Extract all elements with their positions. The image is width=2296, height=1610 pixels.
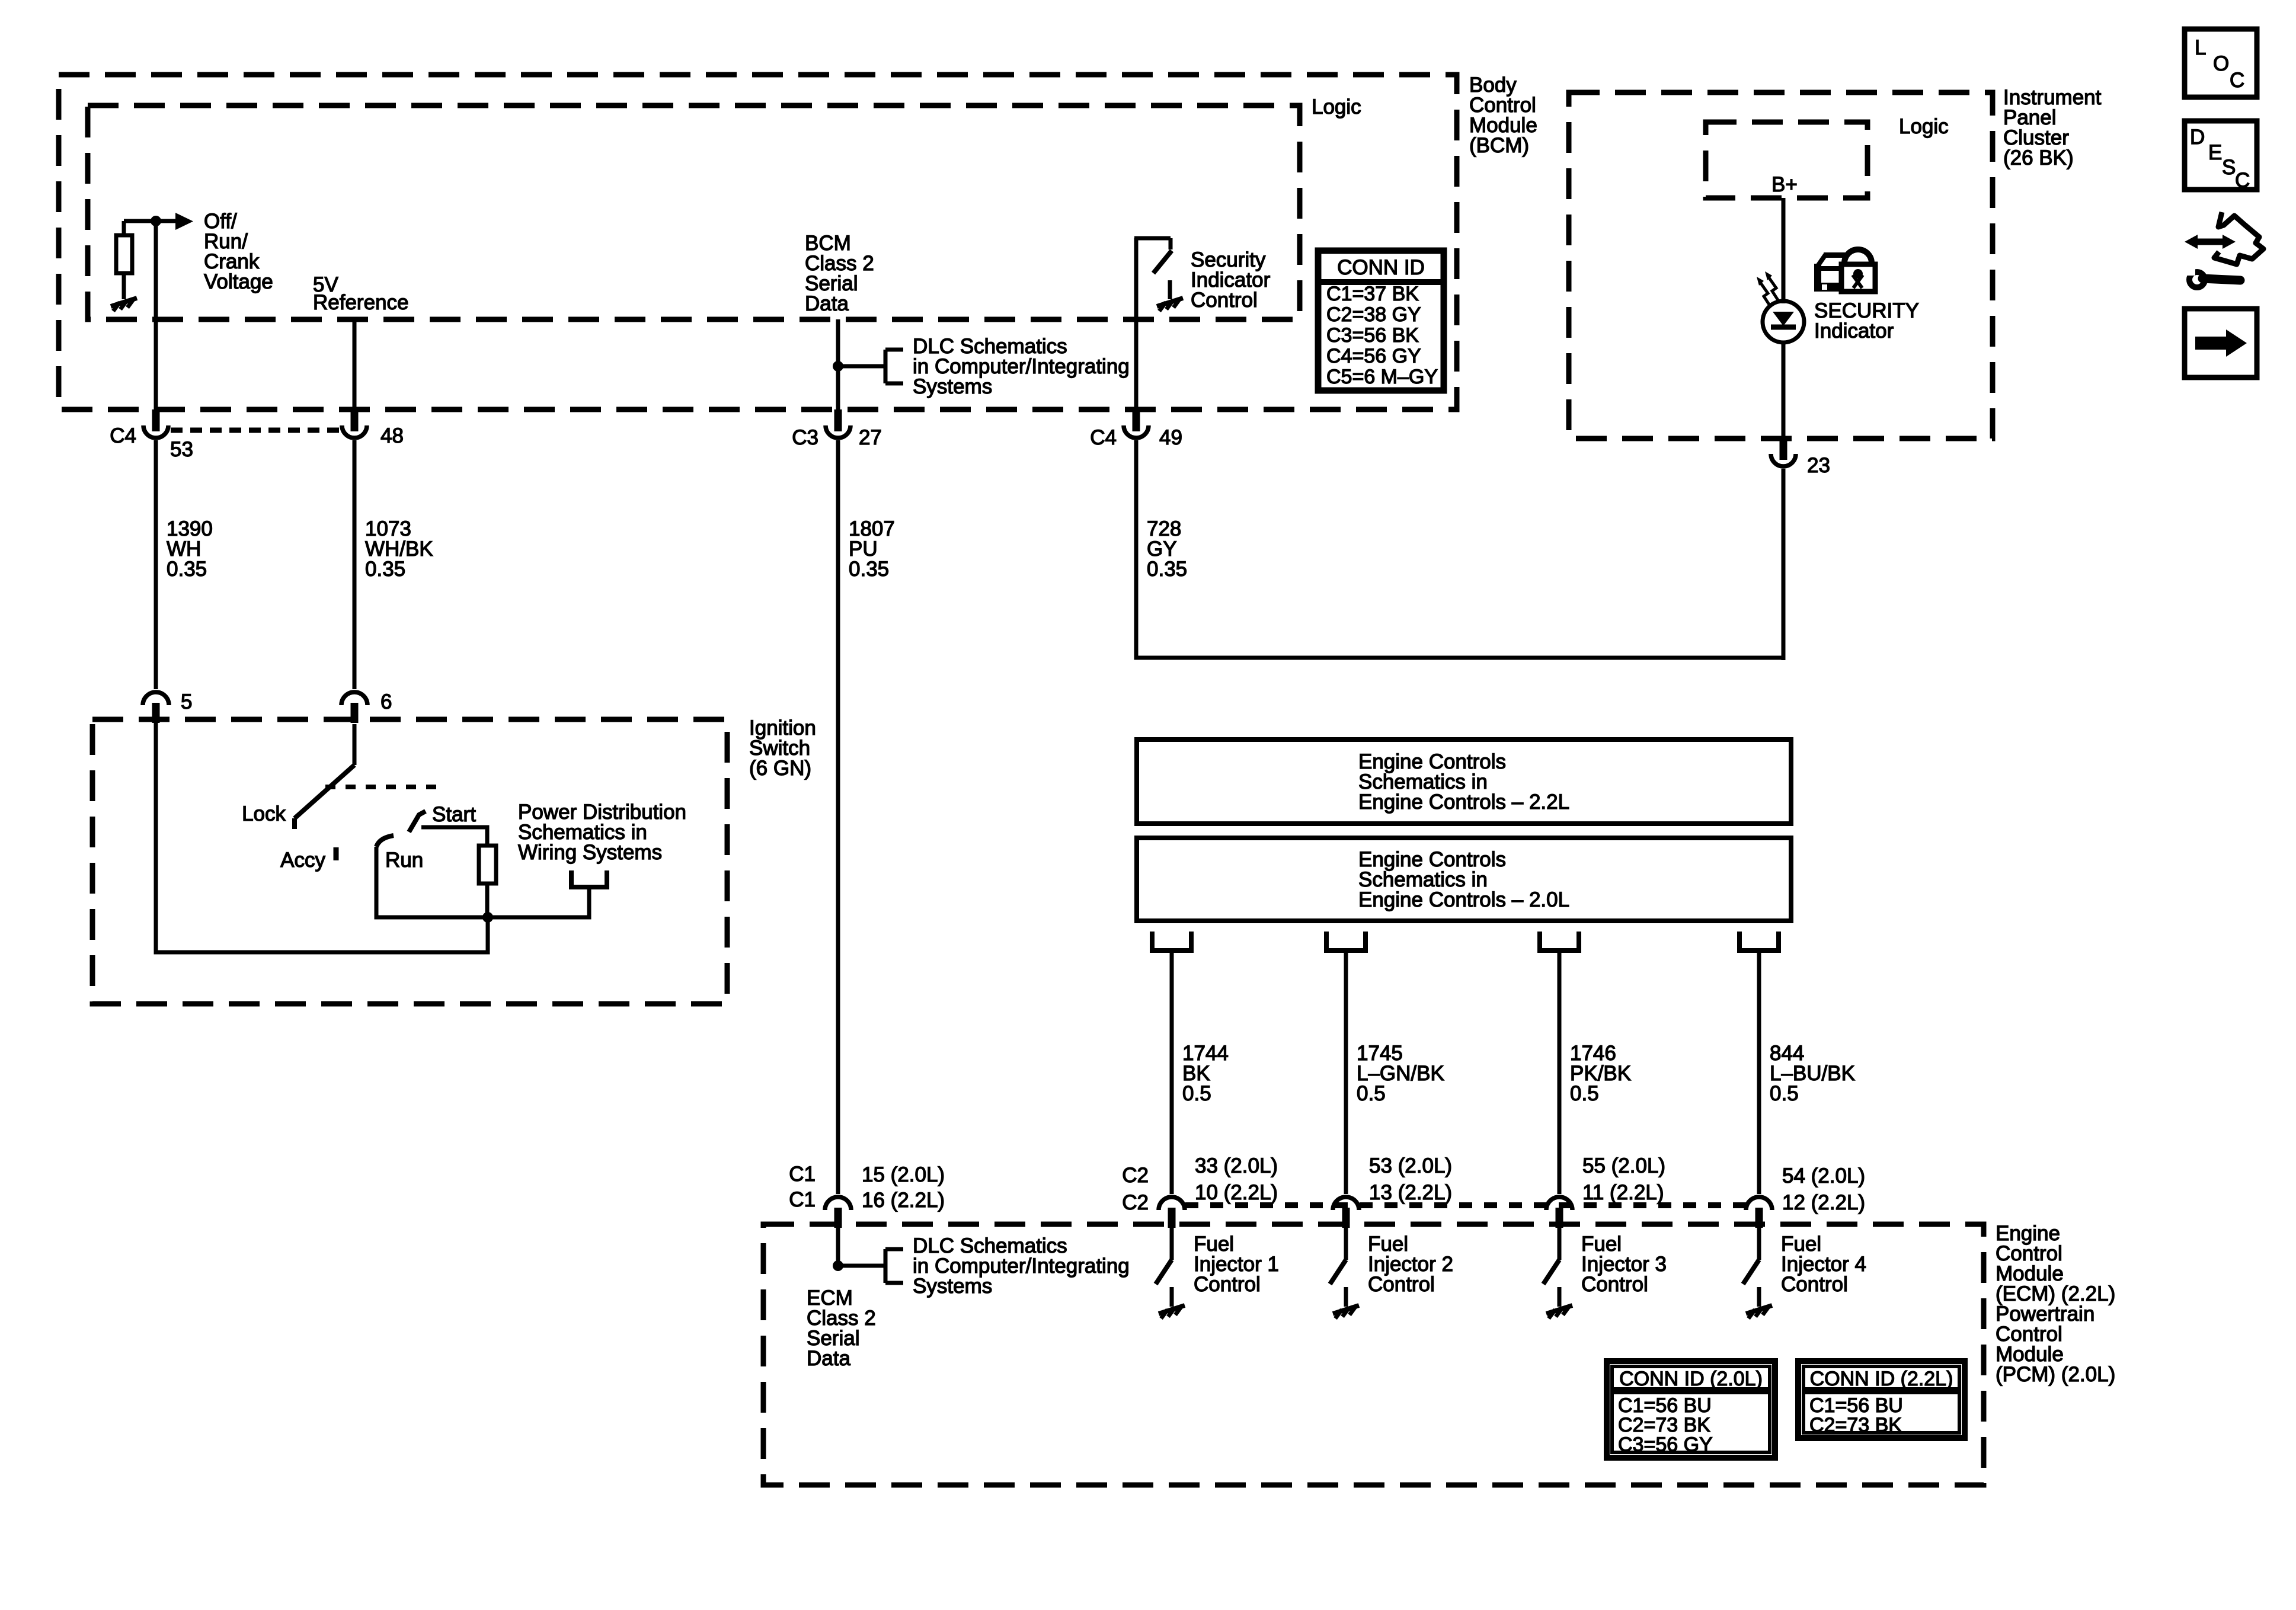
label C3 (27) [792, 426, 818, 449]
svg-text:55 (2.0L): 55 (2.0L) [1582, 1154, 1665, 1177]
svg-text:CONN ID (2.0L): CONN ID (2.0L) [1619, 1368, 1763, 1390]
wire injector 2 driver feed [1344, 1228, 1348, 1260]
wire DLC stub (ECM) [838, 1264, 885, 1268]
label injector 3 pin numbers [1582, 1154, 1665, 1204]
svg-text:0.5: 0.5 [1770, 1082, 1799, 1105]
connector injector 3 cup [1546, 1197, 1572, 1210]
connector injector 4 pin bar [1755, 1208, 1763, 1228]
svg-text:Control: Control [1191, 289, 1258, 312]
label B+ [1771, 173, 1798, 196]
label Body Control Module (BCM) [1469, 73, 1537, 157]
svg-text:Start: Start [432, 803, 476, 826]
switch injector 1 driver blade [1156, 1260, 1172, 1284]
ground (security indicator driver) [1157, 298, 1183, 311]
Ignition Switch dashed box [92, 719, 727, 1004]
off-page connector fuel injector 4 feed [1739, 932, 1779, 950]
label SECURITY Indicator [1814, 299, 1919, 343]
connector C1 (ECM) cup [825, 1197, 851, 1210]
label injector 2 pin numbers [1369, 1154, 1452, 1204]
svg-text:(26 BK): (26 BK) [2003, 146, 2074, 169]
svg-text:Voltage: Voltage [204, 270, 273, 293]
label 48 [380, 424, 404, 447]
switch ignition blade [295, 765, 354, 818]
off-page connector Power Distribution [571, 870, 607, 887]
wire 1073 WH/BK [353, 440, 357, 689]
svg-text:C1: C1 [789, 1188, 816, 1211]
svg-text:CONN ID: CONN ID [1337, 256, 1425, 279]
svg-text:Control: Control [1581, 1273, 1648, 1296]
svg-text:33 (2.0L): 33 (2.0L) [1195, 1154, 1278, 1177]
label C2 C2 [1122, 1164, 1149, 1214]
label Security Indicator Control [1191, 248, 1271, 312]
label 728 GY 0.35 [1147, 517, 1187, 581]
label 1390 WH 0.35 [167, 517, 213, 581]
label 27 [859, 426, 882, 449]
label Engine Controls 2.0L [1358, 848, 1569, 911]
label DLC Schematics note (ECM) [913, 1234, 1130, 1298]
svg-text:54 (2.0L): 54 (2.0L) [1782, 1164, 1865, 1188]
svg-text:Wiring Systems: Wiring Systems [518, 841, 662, 864]
label 15/16 pin numbers [862, 1163, 945, 1212]
icon box right arrow [2185, 309, 2257, 377]
svg-text:Engine Controls – 2.0L: Engine Controls – 2.0L [1358, 888, 1569, 911]
icon jagged outline [2214, 212, 2263, 264]
off-page connector fuel injector 1 feed [1152, 932, 1191, 950]
wire injector 2 control [1344, 950, 1348, 1194]
svg-text:(6 GN): (6 GN) [749, 757, 811, 780]
wire B+ to LED [1782, 198, 1786, 303]
label wire injector 4 (844) [1770, 1042, 1855, 1105]
connector C3 pin 27 cup [826, 425, 850, 438]
svg-text:23: 23 [1807, 454, 1830, 477]
svg-text:S: S [2222, 156, 2236, 179]
label Start [432, 803, 476, 826]
connector 48 pin bar [351, 409, 359, 431]
ground (BCM resistor) [111, 298, 137, 311]
resistor R (BCM pull-up) leads [122, 221, 126, 299]
label wire injector 3 (1746) [1570, 1042, 1631, 1105]
label Ignition Switch (6 GN) [749, 716, 816, 780]
wire security driver top bar [1134, 238, 1171, 249]
wire 23 down [1782, 469, 1786, 660]
svg-text:53: 53 [170, 438, 193, 461]
wire injector 1 control [1170, 950, 1174, 1194]
icon right arrow [2195, 329, 2247, 357]
node junction dot DLC stub (BCM) [833, 361, 843, 372]
wire off/run/crank horizontal [124, 219, 177, 223]
svg-text:C1=37 BK: C1=37 BK [1326, 283, 1419, 305]
connector C4 pin 53 pin bar [152, 409, 160, 431]
wire start contact to resistor [421, 827, 487, 846]
svg-text:L: L [2195, 36, 2206, 59]
node junction dot DLC stub (ECM) [833, 1260, 843, 1271]
svg-text:Reference: Reference [313, 291, 408, 314]
connector 48 cup [342, 425, 367, 438]
wire junction to off-page symbol [488, 887, 589, 917]
label Fuel Injector 2 Control [1368, 1233, 1453, 1296]
icon padlock shackle [1844, 249, 1872, 267]
label ECM PCM module [1996, 1222, 2115, 1386]
label wire injector 2 (1745) [1357, 1042, 1444, 1105]
connector 23 cup [1771, 454, 1796, 466]
svg-text:Data: Data [807, 1347, 850, 1370]
svg-text:C: C [2235, 169, 2250, 192]
LED security indicator circle [1763, 301, 1804, 343]
wire off/run/crank voltage down [154, 221, 158, 409]
connector pin 6 cup [341, 692, 367, 705]
label Accy [280, 849, 325, 872]
contact Start tick [409, 811, 426, 832]
wire BCM class 2 serial data (inside BCM) [836, 319, 840, 409]
svg-text:Engine Controls – 2.2L: Engine Controls – 2.2L [1358, 790, 1569, 814]
Body Control Module (BCM) outer dashed box [59, 75, 1457, 409]
label BCM Class 2 Serial Data [805, 232, 874, 315]
svg-text:C4=56 GY: C4=56 GY [1326, 345, 1421, 367]
wire injector 3 ground stub [1558, 1287, 1562, 1307]
svg-text:49: 49 [1159, 426, 1182, 449]
wire injector 1 driver feed [1170, 1228, 1174, 1260]
wire injector 3 driver feed [1558, 1228, 1562, 1260]
wire ECM class 2 inside [836, 1228, 840, 1266]
label Fuel Injector 3 Control [1581, 1233, 1667, 1296]
svg-text:C: C [2230, 69, 2244, 92]
switch injector 2 driver blade [1330, 1260, 1346, 1284]
label Logic (IPC) [1899, 115, 1949, 138]
wire 728 GY [1136, 440, 1783, 658]
IPC Logic inner dashed box [1706, 122, 1868, 198]
svg-text:Accy: Accy [280, 849, 325, 872]
svg-text:D: D [2190, 126, 2205, 149]
switch security indicator driver blade [1153, 251, 1172, 273]
arrowhead off/run/crank [175, 213, 193, 230]
svg-text:Lock: Lock [242, 802, 286, 825]
ground (injector 1 driver) [1159, 1305, 1185, 1318]
svg-text:0.35: 0.35 [1147, 558, 1187, 581]
wire security driver ground stub [1168, 280, 1172, 299]
svg-text:C2=73 BK: C2=73 BK [1809, 1414, 1902, 1436]
label 53 [170, 438, 193, 461]
label Instrument Panel Cluster (26 BK) [2003, 86, 2102, 169]
svg-text:Control: Control [1194, 1273, 1261, 1296]
off-page connector fuel injector 3 feed [1540, 932, 1579, 950]
svg-text:C5=6 M–GY: C5=6 M–GY [1326, 366, 1438, 388]
label Power Distribution Schematics in Wiring Systems [518, 801, 686, 864]
Instrument Panel Cluster dashed box [1569, 92, 1993, 438]
wire resistor to junction [485, 884, 490, 920]
svg-text:Control: Control [1781, 1273, 1848, 1296]
node junction dot ignition output [482, 912, 493, 923]
label 49 [1159, 426, 1182, 449]
wire run contact down and right [376, 847, 486, 917]
label Fuel Injector 1 Control [1194, 1233, 1279, 1296]
contact Run hook [376, 836, 394, 847]
icon box LOC [2185, 29, 2257, 97]
svg-text:C3=56 BK: C3=56 BK [1326, 324, 1419, 347]
label 23 [1807, 454, 1830, 477]
resistor ignition (resistive start bypass) [479, 846, 496, 884]
label 5 [181, 690, 192, 713]
wire injector 3 control [1558, 950, 1562, 1194]
ECM/PCM dashed box [763, 1224, 1984, 1485]
connector injector 2 cup [1333, 1197, 1359, 1210]
node junction dot at resistor tap [151, 216, 161, 226]
connector C4 pin 53 cup [143, 425, 168, 438]
svg-text:C3: C3 [792, 426, 818, 449]
label C1 C1 [789, 1163, 816, 1211]
wire injector 4 control [1757, 950, 1761, 1194]
label wire injector 1 (1744) [1182, 1042, 1229, 1105]
label 6 [380, 690, 392, 713]
connector C1 (ECM) pin bar [834, 1208, 842, 1228]
table CONN ID (BCM) [1318, 251, 1444, 391]
wire ignition switch feed [353, 724, 357, 765]
wire security indicator driver [1134, 238, 1139, 409]
svg-text:Logic: Logic [1312, 95, 1361, 119]
label injector 1 pin numbers [1195, 1154, 1278, 1204]
icon car silhouette [1814, 252, 1846, 292]
dashed ignition travel line [325, 785, 439, 789]
wire injector 4 ground stub [1757, 1287, 1761, 1307]
svg-text:C2: C2 [1122, 1164, 1149, 1187]
label C4 (49) [1090, 426, 1117, 449]
connector C4 pin 49 cup [1124, 425, 1149, 438]
connector injector 1 cup [1159, 1197, 1185, 1210]
table CONN ID (2.0L) [1607, 1361, 1775, 1458]
svg-text:48: 48 [380, 424, 404, 447]
label Run [385, 849, 423, 872]
svg-text:C2: C2 [1122, 1191, 1149, 1214]
table CONN ID (2.2L) [1798, 1361, 1965, 1438]
label Fuel Injector 4 Control [1781, 1233, 1866, 1296]
wire injector 4 driver feed [1757, 1228, 1761, 1260]
switch ignition blade tick [292, 818, 297, 829]
ground (injector 2 driver) [1333, 1305, 1359, 1318]
icon letters DESC [2190, 126, 2250, 192]
wire LED to pin 23 [1782, 343, 1786, 438]
label Logic (BCM) [1312, 95, 1361, 119]
connector pin 5 cup [143, 692, 169, 705]
label C4 (53) [110, 424, 136, 447]
wire DLC stub (BCM) [838, 364, 885, 369]
svg-text:0.5: 0.5 [1357, 1082, 1386, 1105]
resistor R (BCM pull-up) [116, 235, 132, 273]
svg-text:0.35: 0.35 [849, 558, 889, 581]
bracket DLC note (ECM) [885, 1249, 903, 1283]
wire injector 1 ground stub [1170, 1287, 1174, 1307]
svg-text:0.35: 0.35 [365, 558, 405, 581]
icon padlock body [1841, 264, 1875, 292]
icon letters LOC [2195, 36, 2244, 92]
icon padlock keyhole [1853, 269, 1863, 288]
svg-text:5: 5 [181, 690, 192, 713]
connector C4 pin 49 pin bar [1133, 409, 1140, 431]
icon double arrow (flow) [2185, 235, 2236, 249]
svg-text:53 (2.0L): 53 (2.0L) [1369, 1154, 1452, 1177]
svg-text:Logic: Logic [1899, 115, 1949, 138]
svg-text:Indicator: Indicator [1814, 319, 1894, 343]
svg-text:12 (2.2L): 12 (2.2L) [1782, 1191, 1865, 1214]
svg-text:0.5: 0.5 [1182, 1082, 1211, 1105]
label DLC Schematics note (BCM) [913, 335, 1130, 398]
ground (injector 4 driver) [1746, 1305, 1772, 1318]
off-page connector fuel injector 2 feed [1326, 932, 1366, 950]
svg-text:0.5: 0.5 [1570, 1082, 1599, 1105]
svg-text:27: 27 [859, 426, 882, 449]
connector pin 5 pin bar [152, 703, 160, 723]
connector 23 pin bar [1780, 438, 1787, 460]
ground (injector 3 driver) [1546, 1305, 1572, 1318]
label Lock [242, 802, 286, 825]
box Engine Controls 2.2L [1137, 740, 1791, 824]
wire injector 2 ground stub [1344, 1287, 1348, 1307]
box Engine Controls 2.0L [1137, 838, 1791, 921]
connector injector 3 pin bar [1556, 1208, 1563, 1228]
connector injector 4 cup [1746, 1197, 1772, 1210]
svg-text:Run: Run [385, 849, 423, 872]
LED diode triangle [1773, 312, 1794, 326]
svg-text:15 (2.0L): 15 (2.0L) [862, 1163, 945, 1186]
svg-text:Systems: Systems [913, 1275, 992, 1298]
svg-text:O: O [2213, 52, 2229, 75]
svg-text:C3=56 GY: C3=56 GY [1618, 1433, 1713, 1456]
svg-text:16 (2.2L): 16 (2.2L) [862, 1189, 945, 1212]
svg-text:C4: C4 [110, 424, 136, 447]
svg-text:Systems: Systems [913, 375, 992, 398]
connector injector 2 pin bar [1342, 1208, 1350, 1228]
svg-text:C1: C1 [789, 1163, 816, 1186]
wire ignition output to pin 5 [156, 722, 488, 952]
LED light arrow 1 [1757, 277, 1770, 306]
label Off/Run/Crank Voltage [204, 210, 273, 293]
svg-text:10 (2.2L): 10 (2.2L) [1195, 1181, 1278, 1204]
icon box DESC [2185, 121, 2257, 190]
switch injector 3 driver blade [1543, 1260, 1559, 1284]
svg-text:C2=38 GY: C2=38 GY [1326, 303, 1421, 326]
svg-text:(BCM): (BCM) [1469, 134, 1529, 157]
dashed connector tie line injectors [1185, 1202, 1746, 1208]
label ECM Class 2 Serial Data [807, 1286, 876, 1370]
label injector 4 pin numbers [1782, 1164, 1865, 1214]
svg-text:E: E [2208, 141, 2222, 164]
svg-text:B+: B+ [1771, 173, 1798, 196]
connector injector 1 pin bar [1168, 1208, 1176, 1228]
svg-text:Control: Control [1368, 1273, 1435, 1296]
svg-text:CONN ID (2.2L): CONN ID (2.2L) [1810, 1368, 1953, 1390]
wire 5V reference (inside BCM) [353, 319, 357, 409]
svg-text:13 (2.2L): 13 (2.2L) [1369, 1181, 1452, 1204]
LED light arrow 2 [1765, 271, 1779, 301]
label 1073 WH/BK 0.35 [365, 517, 433, 581]
label 1807 PU 0.35 [849, 517, 895, 581]
connector C3 pin 27 pin bar [834, 409, 842, 431]
connector pin 6 pin bar [351, 703, 359, 723]
dashed connector tie line C4-53 to 48 [171, 428, 340, 433]
label Engine Controls 2.2L [1358, 750, 1569, 814]
bracket DLC note (BCM) [885, 350, 903, 383]
wire 1807 PU [836, 440, 840, 1194]
svg-text:11 (2.2L): 11 (2.2L) [1582, 1181, 1664, 1204]
svg-text:(PCM) (2.0L): (PCM) (2.0L) [1996, 1363, 2115, 1386]
icon wrench [2187, 267, 2240, 287]
svg-text:C4: C4 [1090, 426, 1117, 449]
LED cathode bar [1771, 325, 1796, 330]
wire 1390 WH [154, 440, 158, 689]
switch injector 4 driver blade [1743, 1260, 1759, 1284]
label 5V Reference [313, 273, 408, 314]
contact Accy tick [334, 847, 339, 860]
svg-text:Data: Data [805, 292, 849, 315]
svg-text:6: 6 [380, 690, 392, 713]
BCM Logic inner dashed box [88, 105, 1300, 319]
svg-text:0.35: 0.35 [167, 558, 207, 581]
